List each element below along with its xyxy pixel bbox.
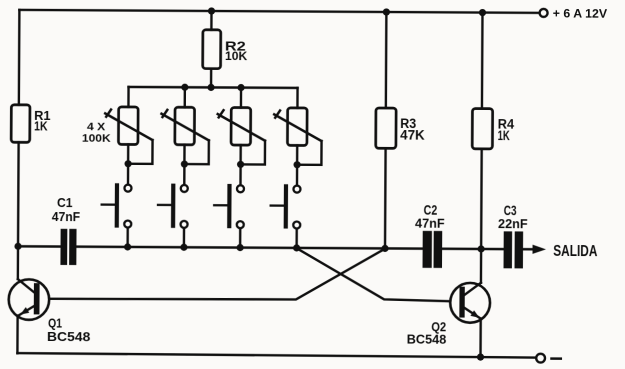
svg-text:100K: 100K bbox=[82, 133, 112, 145]
node S1 / signal bus bbox=[124, 243, 131, 250]
svg-text:SALIDA: SALIDA bbox=[553, 243, 597, 260]
resistor R4 bbox=[472, 109, 492, 149]
transistor Q2 base bar bbox=[459, 287, 464, 318]
node S4 / signal bus bbox=[293, 244, 300, 251]
preset P4 wiper arrow bbox=[274, 110, 322, 141]
transistor Q1 body bbox=[9, 279, 50, 320]
wire R3 top stub bbox=[385, 12, 388, 108]
wire P4 wiper return bbox=[297, 141, 321, 165]
wire Q1 emitter to 0V rail bbox=[16, 316, 19, 354]
capacitor C3 bbox=[504, 231, 524, 268]
terminal +V supply bbox=[540, 9, 548, 17]
wire C3 to output bbox=[523, 248, 538, 250]
node bus / P3 bbox=[237, 84, 244, 91]
node top rail / R4 bbox=[479, 9, 486, 16]
preset P4 100K body bbox=[287, 108, 307, 146]
svg-text:C1: C1 bbox=[57, 195, 73, 210]
preset P1 wiper arrow bbox=[105, 110, 153, 141]
wire Q1 collector bbox=[18, 246, 35, 292]
node S3 / signal bus bbox=[237, 244, 244, 251]
wire node B to Q1 base bbox=[40, 247, 385, 301]
wire P2 top stub bbox=[184, 87, 187, 107]
node B (R3/bus/Q1 base link) bbox=[381, 245, 388, 252]
node top rail / R2 bbox=[208, 7, 215, 14]
wire P2 bottom stub bbox=[183, 145, 186, 164]
switch S1 stem bbox=[102, 203, 115, 205]
wire P3 wiper return bbox=[241, 141, 265, 165]
wire P2 to S2 bbox=[183, 164, 186, 184]
node P3 bottom bbox=[237, 161, 244, 168]
node P4 bottom bbox=[293, 161, 300, 168]
wire R4 top stub bbox=[481, 13, 484, 109]
node P2 bottom bbox=[181, 160, 188, 167]
preset P1 100K body bbox=[118, 107, 138, 145]
switch S2 actuator bar bbox=[171, 184, 175, 228]
label negative sign bbox=[551, 357, 560, 360]
wire P3 top stub bbox=[240, 88, 243, 108]
capacitor C1 bbox=[60, 229, 76, 265]
wire R2 bottom stub bbox=[210, 69, 213, 88]
node Q2 emitter / 0V rail bbox=[477, 353, 484, 360]
svg-text:47K: 47K bbox=[400, 128, 425, 143]
switch S4 bottom contact bbox=[293, 221, 300, 228]
wire S3 to signal bus bbox=[239, 229, 242, 247]
svg-text:22nF: 22nF bbox=[498, 216, 528, 231]
svg-text:1K: 1K bbox=[498, 128, 510, 143]
wire 0V bottom rail bbox=[17, 353, 536, 357]
switch S3 actuator bar bbox=[227, 184, 231, 228]
transistor Q1 emitter bbox=[19, 306, 34, 316]
svg-text:BC548: BC548 bbox=[47, 329, 90, 344]
wire R2 top stub bbox=[210, 11, 213, 30]
wire R1 bottom to node A bbox=[17, 142, 20, 246]
switch S2 bottom contact bbox=[181, 221, 188, 228]
wire node S4 to Q2 base bbox=[296, 248, 459, 301]
svg-text:47nF: 47nF bbox=[52, 209, 80, 224]
switch S4 top contact bbox=[293, 186, 300, 193]
svg-text:4 X: 4 X bbox=[87, 121, 106, 133]
switch S3 stem bbox=[214, 204, 227, 206]
wire P1 to S1 bbox=[127, 164, 130, 184]
wire left rail (R1 top) bbox=[18, 10, 21, 105]
wire C2 to node C bbox=[442, 248, 504, 251]
wire P1 wiper return bbox=[128, 140, 152, 164]
switch S1 top contact bbox=[124, 185, 131, 192]
wire S2 to signal bus bbox=[183, 229, 186, 247]
terminal 0V negative bbox=[536, 354, 545, 363]
wire +V top rail bbox=[19, 10, 539, 13]
switch S4 stem bbox=[271, 204, 284, 206]
node bus / R2 bbox=[207, 84, 214, 91]
switch S1 bottom contact bbox=[124, 221, 131, 228]
wire C1 to switch bus bbox=[76, 245, 127, 248]
transistor Q1 base bar bbox=[34, 283, 40, 314]
wire S1 to signal bus bbox=[126, 229, 129, 247]
svg-text:47nF: 47nF bbox=[415, 216, 445, 231]
node A (R1/C1/Q1 collector) bbox=[14, 243, 21, 250]
wire preset top bus bbox=[129, 86, 298, 89]
wire P3 to S3 bbox=[239, 164, 242, 184]
svg-text:+ 6 A 12V: + 6 A 12V bbox=[553, 7, 608, 21]
wire node A to C1 bbox=[18, 245, 61, 248]
preset P3 100K body bbox=[231, 108, 251, 146]
wire node B to C2 bbox=[385, 247, 423, 250]
svg-text:10K: 10K bbox=[225, 49, 247, 63]
wire Q2 emitter to 0V rail bbox=[479, 319, 482, 357]
preset P2 wiper arrow bbox=[161, 110, 209, 141]
svg-text:BC548: BC548 bbox=[407, 333, 447, 347]
wire P2 wiper return bbox=[184, 140, 208, 164]
arrow output bbox=[533, 245, 547, 254]
wire P1 top stub bbox=[127, 87, 130, 107]
switch S2 top contact bbox=[181, 185, 188, 192]
transistor Q2 emitter bbox=[464, 308, 480, 318]
wire P4 to S4 bbox=[296, 165, 299, 185]
resistor R1 bbox=[11, 105, 30, 143]
node C (R4/Q2 collector/C2/C3) bbox=[478, 245, 485, 252]
node top rail / R3 bbox=[383, 8, 390, 15]
wire R4 bottom stub bbox=[480, 149, 483, 249]
wire bus to node B bbox=[297, 247, 385, 250]
resistor R2 bbox=[203, 30, 221, 69]
wire switch bus bbox=[128, 246, 297, 249]
preset P3 wiper arrow bbox=[218, 110, 266, 141]
switch S2 stem bbox=[158, 204, 171, 206]
wire Q2 collector bbox=[465, 249, 482, 295]
capacitor C2 bbox=[423, 231, 443, 268]
transistor Q2 body bbox=[450, 283, 490, 323]
switch S4 actuator bar bbox=[284, 184, 288, 228]
node P1 bottom bbox=[124, 160, 131, 167]
resistor R3 bbox=[376, 108, 396, 148]
wire S4 to signal bus bbox=[295, 230, 298, 248]
switch S3 top contact bbox=[237, 185, 244, 192]
node S2 / signal bus bbox=[180, 244, 187, 251]
wire P4 bottom stub bbox=[296, 145, 299, 164]
wire P3 bottom stub bbox=[239, 145, 242, 164]
node bus / P2 bbox=[181, 84, 188, 91]
wire P4 top stub bbox=[296, 88, 299, 108]
preset P2 100K body bbox=[175, 107, 195, 145]
svg-text:1K: 1K bbox=[34, 118, 48, 133]
switch S3 bottom contact bbox=[237, 221, 244, 228]
wire R3 bottom stub bbox=[384, 148, 387, 248]
switch S1 actuator bar bbox=[115, 183, 119, 227]
wire P1 bottom stub bbox=[127, 144, 130, 163]
